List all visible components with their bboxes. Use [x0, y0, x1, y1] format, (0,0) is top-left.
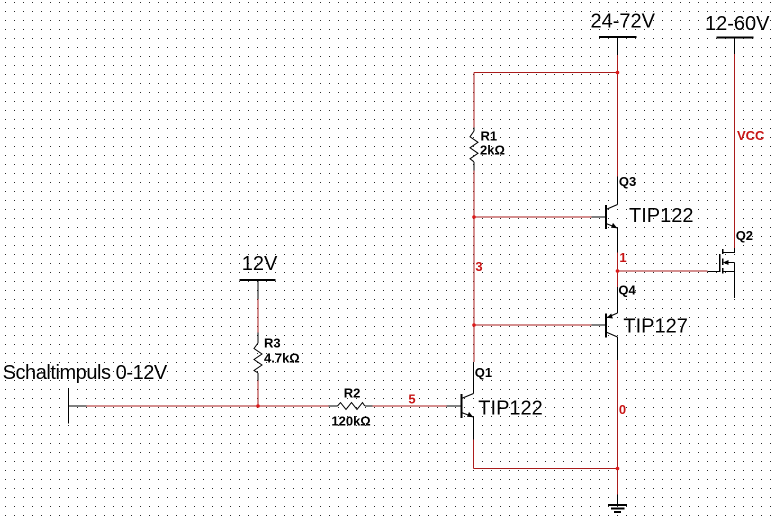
svg-text:1: 1: [619, 250, 626, 265]
power rail V1 24-72V bar: [599, 36, 637, 38]
svg-text:R3: R3: [264, 336, 281, 351]
wire net 0: Q4 collector to bottom junction: [617, 360, 619, 469]
transistor Q4 TIP127 (PNP): [592, 287, 618, 360]
power rail V3 12V bar: [240, 279, 276, 281]
wire net 1: junction to Q4 emitter: [617, 271, 619, 287]
transistor Q3 TIP122 (NPN): [592, 177, 618, 253]
transistor Q1 TIP122 (NPN): [447, 362, 474, 440]
wire net 24-72V top horizontal: [474, 72, 618, 74]
svg-text:24-72V: 24-72V: [591, 11, 656, 33]
svg-text:Q1: Q1: [475, 365, 492, 380]
power rail V2 12-60V bar: [717, 37, 754, 39]
wire net 0: bottom horizontal: [474, 468, 618, 470]
power rail V1 pin: [617, 37, 619, 55]
svg-text:TIP127: TIP127: [623, 315, 687, 337]
wire net 3: to Q3 base: [474, 216, 592, 218]
resistor R2: [329, 403, 373, 410]
svg-text:Q2: Q2: [736, 228, 753, 243]
svg-text:R2: R2: [344, 386, 361, 401]
input terminal Schaltimpuls: [69, 388, 87, 424]
wire net 3: R1 bottom to junction: [473, 171, 475, 218]
svg-text:5: 5: [408, 391, 415, 406]
power rail V2 pin: [734, 38, 736, 55]
wire 12V pin to R3: [257, 299, 259, 333]
junction node net1: [616, 269, 620, 273]
junction node net5/R3: [256, 404, 260, 408]
wire net 5: R2 to Q1 base: [373, 405, 447, 407]
wire net 3: junction to Q1 collector: [473, 325, 475, 362]
svg-text:TIP122: TIP122: [629, 205, 693, 227]
svg-text:4.7kΩ: 4.7kΩ: [264, 350, 300, 365]
wire net VCC: V2 pin to Q2 drain: [734, 54, 736, 248]
svg-text:VCC: VCC: [737, 128, 765, 143]
wire net 0: Q1 emitter down: [473, 440, 475, 469]
wire net 3: vertical between junctions: [473, 217, 475, 325]
svg-text:0: 0: [619, 402, 626, 417]
svg-text:Q3: Q3: [619, 174, 636, 189]
svg-text:Schaltimpuls 0-12V: Schaltimpuls 0-12V: [3, 362, 168, 384]
wire junction to Q3 collector: [617, 73, 619, 177]
transistor Q2 (N-MOSFET): [708, 248, 735, 298]
ground symbol: [608, 495, 627, 513]
wire net 24-72V vertical to R1: [473, 73, 475, 128]
wire net 3: to Q4 base: [474, 324, 592, 326]
wire net 5: terminal to R2: [87, 405, 329, 407]
resistor R1: [470, 128, 478, 171]
junction node V1/top: [616, 71, 620, 75]
wire V1 pin to junction: [617, 55, 619, 73]
wire R3 to net 5 junction: [257, 381, 259, 407]
wire net 1: Q3 emitter to junction: [617, 253, 619, 272]
svg-text:12V: 12V: [242, 253, 278, 275]
svg-text:R1: R1: [481, 128, 498, 143]
power rail V3 pin: [257, 280, 259, 299]
svg-text:TIP122: TIP122: [478, 397, 542, 419]
wire net 1: junction to Q2 gate: [618, 270, 708, 272]
svg-text:2kΩ: 2kΩ: [480, 143, 505, 158]
svg-text:3: 3: [475, 259, 482, 274]
resistor R3: [254, 333, 262, 381]
svg-text:Q4: Q4: [618, 283, 636, 298]
svg-text:120kΩ: 120kΩ: [331, 414, 370, 429]
svg-text:12-60V: 12-60V: [705, 13, 770, 35]
junction node net0/ground: [616, 467, 620, 471]
wire net 0: junction to ground: [617, 469, 619, 495]
junction node net3/Q3: [472, 215, 476, 219]
junction node net3/Q4: [472, 323, 476, 327]
